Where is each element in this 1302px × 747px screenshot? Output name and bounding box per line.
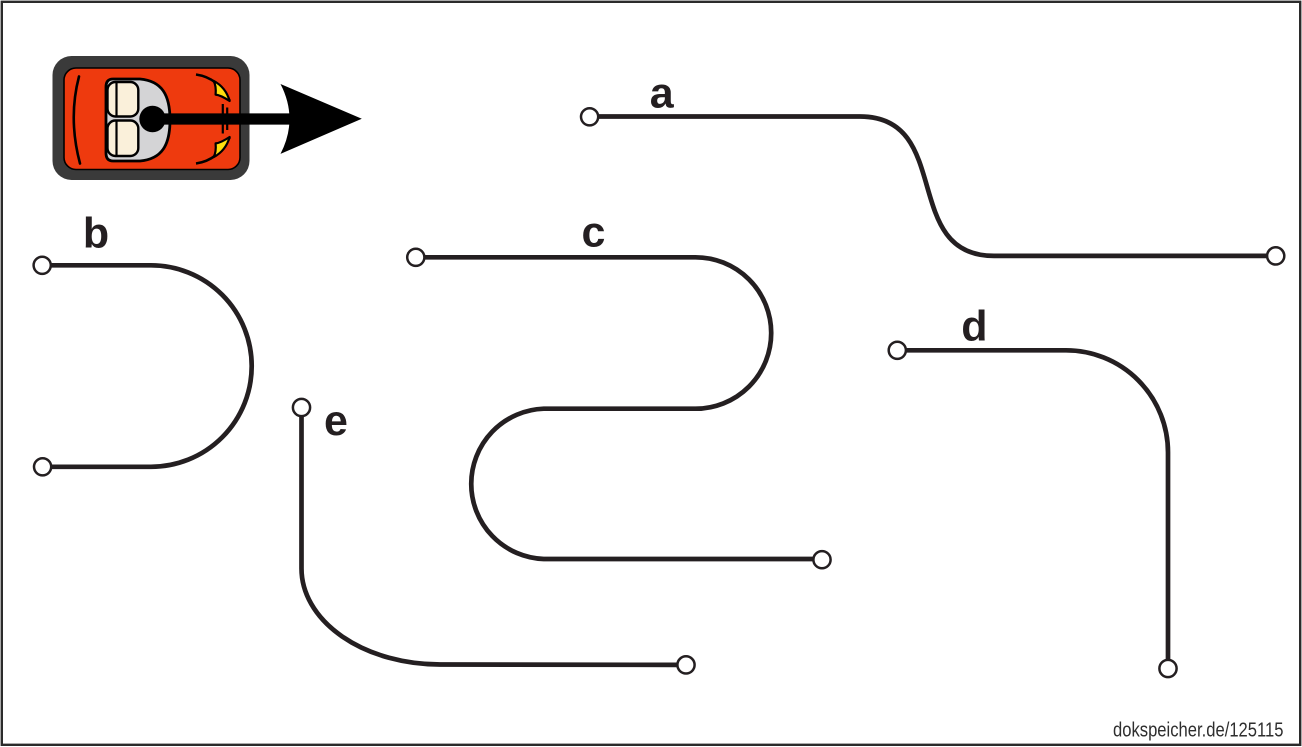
path a start circle [581,108,598,125]
seat bottom [108,121,139,157]
path b top circle [34,257,51,274]
svg-text:e: e [324,397,348,445]
svg-text:b: b [83,209,109,257]
seat bottom divider [115,121,117,156]
seat top divider [115,83,117,117]
svg-text:d: d [961,303,987,351]
steering wheel dot [139,106,165,132]
path c start circle [407,249,424,266]
svg-text:dokspeicher.de/125115: dokspeicher.de/125115 [1113,719,1284,741]
cabin / windshield [106,79,170,161]
path d end circle [1159,660,1176,677]
seat top [108,82,139,117]
path b bottom circle [34,458,51,475]
path b [51,265,252,467]
path c [424,257,813,559]
arrow head [281,84,362,154]
headlight top yellow [214,81,230,101]
front bumper line right [226,108,228,131]
car body outer dark shell [53,56,250,180]
path d start circle [889,342,906,359]
arrow shaft [152,113,290,124]
svg-text:a: a [650,69,675,117]
rear window arc [74,77,80,164]
path e [302,416,678,665]
front fender arc bottom [196,137,230,163]
headlight bottom yellow [214,137,230,157]
path e start circle [293,399,310,416]
car body red [64,68,240,170]
path d [906,350,1168,659]
path e end circle [677,656,694,673]
path a end circle [1267,247,1284,264]
svg-text:c: c [582,208,606,256]
path a [598,117,1267,256]
front fender arc top [196,75,230,101]
front bumper line left [222,104,224,134]
path c end circle [813,551,830,568]
